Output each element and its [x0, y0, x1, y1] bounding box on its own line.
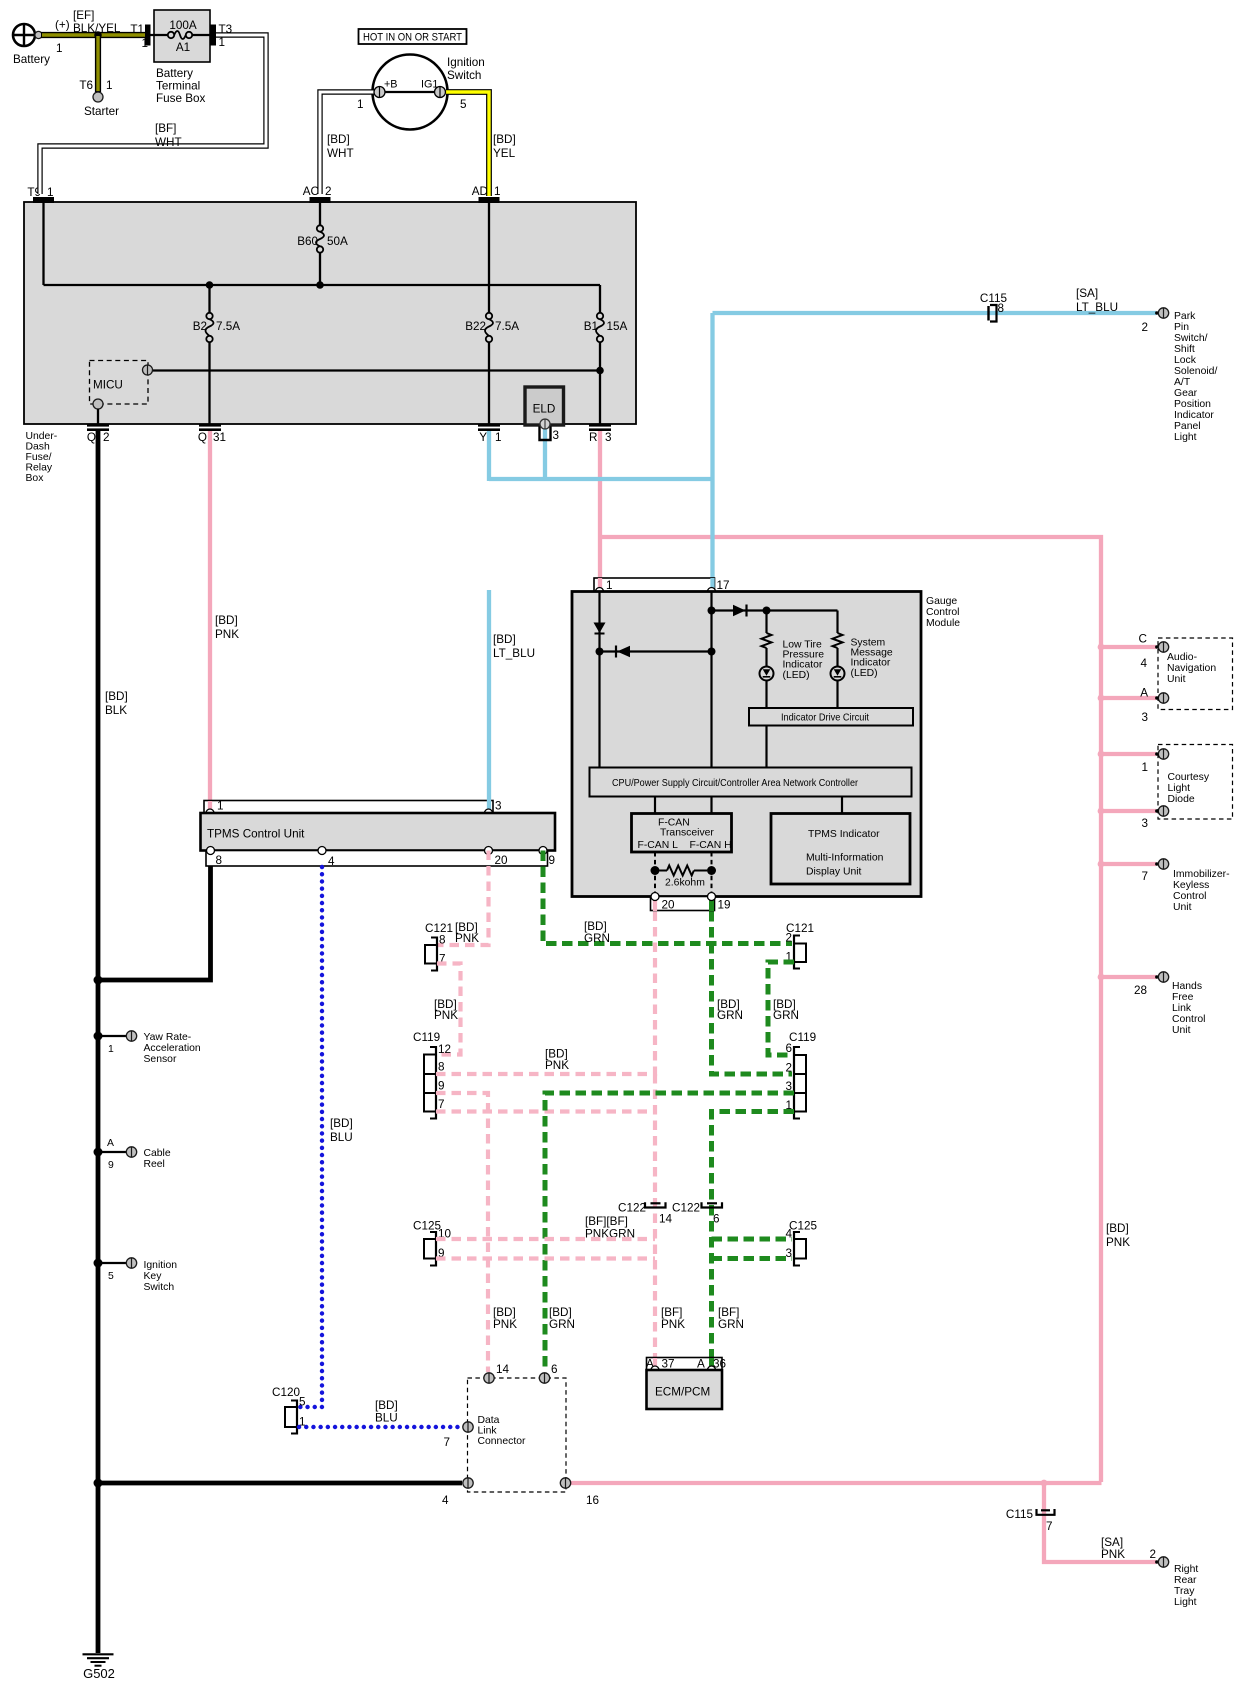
wire PNK dashed gauge pin20 down to ECM pin37: [653, 1074, 657, 1366]
svg-text:B1: B1: [584, 320, 598, 333]
wire PNK dashed C119 pin9 to DLC pin14: [436, 1093, 488, 1372]
svg-text:Control: Control: [1173, 891, 1207, 902]
wire PNK dashed TPMS pin20 to C121 pin8: [438, 851, 489, 946]
wire PNK out of gauge pin20: [653, 899, 657, 911]
svg-text:Terminal: Terminal: [156, 80, 200, 93]
svg-text:7: 7: [1141, 870, 1148, 883]
wire audio C branch: [1101, 645, 1156, 649]
svg-text:[BD]: [BD]: [1106, 1222, 1129, 1235]
node gauge j3: [708, 607, 716, 615]
svg-text:9: 9: [108, 1160, 114, 1171]
wire gauge pin17 internal: [710, 592, 712, 768]
svg-text:1: 1: [141, 37, 148, 50]
wire GRN out of gauge pin19: [709, 899, 714, 911]
svg-text:Cable: Cable: [144, 1148, 171, 1159]
wire black to data link connector pin4: [98, 1481, 462, 1486]
svg-text:5: 5: [460, 98, 467, 111]
svg-text:Module: Module: [926, 618, 960, 629]
svg-text:7.5A: 7.5A: [216, 320, 240, 333]
svg-text:3: 3: [553, 429, 560, 442]
gauge top connector box: [594, 578, 715, 592]
node gauge j2: [708, 648, 716, 656]
svg-text:B22: B22: [465, 320, 486, 333]
wire yaw branch: [98, 1035, 127, 1037]
CPU box: [590, 768, 912, 797]
svg-text:[BD]: [BD]: [215, 614, 238, 627]
wire hands free branch: [1101, 975, 1156, 979]
svg-text:Tray: Tray: [1174, 1586, 1195, 1597]
DLC pin6 terminal: [539, 1373, 549, 1383]
svg-text:A: A: [697, 1358, 705, 1371]
svg-text:Position: Position: [1174, 399, 1211, 410]
svg-text:BLU: BLU: [375, 1412, 398, 1425]
svg-text:4: 4: [785, 1228, 792, 1241]
svg-text:Transceiver: Transceiver: [660, 828, 714, 839]
svg-text:TPMS Indicator: TPMS Indicator: [808, 829, 880, 840]
svg-text:Q: Q: [198, 431, 207, 444]
svg-text:8: 8: [216, 854, 223, 867]
svg-text:ELD: ELD: [533, 403, 556, 416]
svg-text:Link: Link: [478, 1426, 498, 1437]
connector C119 left: [424, 1046, 436, 1120]
svg-text:Indicator: Indicator: [851, 658, 891, 669]
svg-text:Indicator: Indicator: [783, 660, 823, 671]
resistor system message: [833, 633, 843, 648]
svg-text:GRN: GRN: [584, 932, 610, 945]
wire PNK dashed C121 pin7 to C119 pin12: [437, 964, 461, 1055]
node hands free branch: [1098, 974, 1105, 981]
LED low tire pressure indicator: [760, 667, 774, 681]
ECM/PCM header box: [647, 1358, 723, 1371]
gauge control module box: [572, 592, 921, 897]
svg-text:Panel: Panel: [1174, 421, 1201, 432]
svg-text:16: 16: [586, 1494, 599, 1507]
svg-text:19: 19: [718, 899, 731, 912]
svg-text:[BD]: [BD]: [105, 690, 128, 703]
svg-text:BLK: BLK: [105, 704, 127, 717]
svg-text:1: 1: [219, 36, 226, 49]
ignition switch: [373, 55, 448, 130]
svg-text:[BD]: [BD]: [327, 133, 350, 146]
svg-text:20: 20: [662, 899, 676, 912]
svg-text:6: 6: [713, 1213, 720, 1226]
node DLC black branch: [94, 1479, 103, 1488]
node bus-B60: [316, 281, 324, 289]
wire gauge h1: [600, 650, 712, 652]
wire audio A branch: [1101, 696, 1156, 700]
svg-text:Solenoid/: Solenoid/: [1174, 366, 1217, 377]
svg-text:Diode: Diode: [1168, 794, 1195, 805]
svg-text:15A: 15A: [607, 320, 628, 333]
svg-text:6: 6: [785, 1042, 792, 1055]
svg-text:A: A: [1140, 687, 1148, 700]
svg-text:100A: 100A: [169, 19, 197, 32]
wire B60 branch from AC: [319, 203, 321, 228]
wire PNK R3 down to gauge pin1: [598, 431, 602, 590]
fuse B22 7.5A: [486, 313, 492, 319]
wire B22 branch from AD: [488, 203, 490, 316]
wire starter branch: [95, 35, 101, 92]
indicator drive circuit box: [749, 708, 913, 726]
wire B2 branch: [208, 285, 210, 316]
wire LED to IDC: [765, 681, 767, 709]
svg-text:Fuse Box: Fuse Box: [156, 92, 206, 105]
wire GRN dashed branch to C125 right pin4: [712, 1237, 793, 1242]
wire CPU to FCAN H: [710, 797, 712, 814]
svg-text:5: 5: [108, 1271, 114, 1282]
wire LT_BLU riser and drop to gauge pin17: [710, 313, 714, 590]
ignition key switch terminal: [126, 1258, 136, 1268]
svg-text:Ignition: Ignition: [447, 56, 485, 69]
node black junction: [94, 976, 103, 985]
svg-text:3: 3: [605, 431, 612, 444]
svg-text:Fuse/: Fuse/: [26, 452, 52, 463]
svg-text:Courtesy: Courtesy: [1168, 772, 1210, 783]
connector C122 pin14: [645, 1202, 666, 1207]
svg-text:A: A: [107, 1138, 114, 1149]
svg-text:9: 9: [438, 1080, 445, 1093]
svg-text:Hands: Hands: [1172, 981, 1202, 992]
wire courtesy 3 branch: [1101, 809, 1156, 813]
svg-text:Q: Q: [87, 431, 96, 444]
svg-text:PNK: PNK: [1101, 1548, 1125, 1561]
wire PNK DLC16 to rail: [571, 1481, 1102, 1485]
svg-text:9: 9: [549, 854, 556, 867]
connector C121 right: [794, 935, 806, 970]
svg-text:1: 1: [47, 186, 54, 199]
MICU bottom terminal: [93, 399, 103, 409]
wire internal bus: [44, 284, 601, 286]
svg-text:PNK: PNK: [661, 1318, 685, 1331]
svg-text:A1: A1: [176, 41, 190, 54]
svg-text:[EF]: [EF]: [73, 9, 94, 22]
wire [BD] WHT +B to AC: [320, 92, 374, 194]
ECM/PCM box: [647, 1370, 723, 1409]
DLC pin7 terminal: [463, 1422, 473, 1432]
svg-text:BLU: BLU: [330, 1131, 353, 1144]
node immobilizer branch: [1098, 861, 1105, 868]
svg-text:37: 37: [662, 1358, 675, 1371]
svg-text:Pin: Pin: [1174, 322, 1189, 333]
svg-text:PNK: PNK: [1106, 1236, 1130, 1249]
svg-text:2: 2: [785, 1062, 792, 1075]
svg-text:12: 12: [438, 1043, 451, 1056]
svg-text:3: 3: [1141, 817, 1148, 830]
terminal Y1: [478, 424, 500, 431]
svg-text:Yaw Rate-: Yaw Rate-: [144, 1032, 192, 1043]
wire ignition key switch branch: [98, 1262, 127, 1264]
svg-text:7.5A: 7.5A: [495, 320, 519, 333]
svg-text:Data: Data: [478, 1415, 500, 1426]
wire CPU to TPMS indicator: [841, 797, 843, 814]
svg-text:Audio-: Audio-: [1167, 652, 1197, 663]
connector C121 left: [425, 937, 437, 972]
fuse B1 15A: [597, 313, 603, 319]
wire T9 internal: [42, 203, 44, 285]
svg-text:(+): (+): [55, 19, 70, 32]
svg-text:WHT: WHT: [327, 147, 354, 160]
terminal AD: [479, 197, 500, 203]
ELD pin circle: [540, 419, 550, 429]
wire IDC to CPU: [765, 726, 767, 768]
wire GRN dashed C121 right pin1 to C119 right pin6: [768, 962, 794, 1055]
svg-text:6: 6: [551, 1363, 558, 1376]
wire LT_BLU Y1 down: [487, 431, 491, 481]
node gauge j4: [763, 607, 771, 615]
terminal AC: [310, 197, 331, 203]
svg-text:Link: Link: [1172, 1003, 1192, 1014]
ECM pin36 circle: [708, 1366, 716, 1374]
svg-text:Display Unit: Display Unit: [806, 867, 862, 878]
svg-text:Gauge: Gauge: [926, 596, 957, 607]
svg-text:8: 8: [998, 302, 1005, 315]
wire LT_BLU horizontal: [489, 477, 713, 481]
DLC pin16 terminal: [560, 1478, 570, 1488]
terminal Q2: [87, 424, 109, 431]
svg-text:Under-: Under-: [26, 431, 58, 442]
svg-text:28: 28: [1134, 984, 1147, 997]
svg-text:3: 3: [1141, 711, 1148, 724]
svg-text:LT_BLU: LT_BLU: [1076, 301, 1118, 314]
node B1-MICU: [596, 367, 604, 375]
svg-text:ECM/PCM: ECM/PCM: [655, 1386, 710, 1399]
svg-text:GRN: GRN: [717, 1009, 743, 1022]
wire [BD] BLU TPMS pin4 to C120: [299, 867, 322, 1407]
svg-text:Sensor: Sensor: [144, 1054, 177, 1065]
svg-text:7: 7: [443, 1436, 450, 1449]
svg-text:A/T: A/T: [1174, 377, 1191, 388]
svg-text:14: 14: [496, 1363, 510, 1376]
svg-text:Indicator: Indicator: [1174, 410, 1214, 421]
gauge pin1 circle: [596, 588, 604, 596]
svg-text:(LED): (LED): [783, 670, 810, 681]
svg-text:Light: Light: [1168, 783, 1191, 794]
svg-text:2: 2: [325, 185, 332, 198]
gauge bottom connector box: [651, 897, 715, 911]
svg-text:[BD]: [BD]: [375, 1399, 398, 1412]
wire immobilizer branch: [1101, 862, 1156, 866]
wire GRN into ECM pin36: [709, 1358, 714, 1366]
node fcan L: [651, 866, 660, 875]
svg-text:1: 1: [494, 185, 501, 198]
LED system message indicator: [831, 667, 845, 681]
svg-text:3: 3: [785, 1247, 792, 1260]
wire to system resistor: [836, 611, 838, 634]
diode D3 right: [733, 605, 747, 617]
wire [BD] YEL IG1 to AD: [446, 92, 489, 196]
node courtesy 3 branch: [1098, 808, 1105, 815]
wire PNK right rail: [600, 537, 1101, 1482]
svg-text:1: 1: [217, 800, 224, 813]
wire GRN dashed TPMS pin9 to C121 right pin2: [543, 851, 792, 944]
svg-text:Relay: Relay: [26, 463, 53, 474]
resistor 2.6kohm: [660, 866, 708, 876]
audio-navigation unit box: [1158, 638, 1233, 710]
svg-text:CPU/Power Supply Circuit/Contr: CPU/Power Supply Circuit/Controller Area…: [612, 778, 858, 789]
TPMS indicator / multi-information display box: [771, 814, 910, 885]
terminal T9: [33, 197, 54, 203]
svg-text:Ignition: Ignition: [144, 1260, 178, 1271]
wire [BD] BLU C120 pin1 to DLC pin7: [299, 1425, 461, 1429]
wire MICU horizontal: [152, 369, 600, 371]
svg-text:1: 1: [495, 431, 502, 444]
svg-text:2: 2: [103, 431, 110, 444]
node gauge j1: [596, 648, 604, 656]
ELD box: [525, 387, 564, 425]
fuse B2 7.5A: [206, 313, 212, 319]
svg-text:Multi-Information: Multi-Information: [806, 853, 884, 864]
svg-text:Keyless: Keyless: [1173, 880, 1209, 891]
svg-text:LT_BLU: LT_BLU: [493, 647, 535, 660]
wire PNK dashed C125 pin9: [436, 1256, 655, 1260]
starter terminal: [93, 92, 103, 102]
wire [SA] LT_BLU to park pin switch: [713, 311, 1157, 315]
svg-text:HOT IN ON OR START: HOT IN ON OR START: [363, 32, 462, 44]
yaw rate terminal: [126, 1031, 136, 1041]
wire GRN dashed C119 right pin3 to DLC pin6: [545, 1093, 794, 1372]
wire LT_BLU into gauge pin17: [710, 578, 714, 588]
svg-text:Switch: Switch: [447, 69, 481, 82]
svg-text:1: 1: [1141, 761, 1148, 774]
svg-text:5: 5: [299, 1396, 306, 1409]
svg-text:14: 14: [659, 1213, 673, 1226]
connector C125 left: [424, 1231, 436, 1267]
svg-text:PNK: PNK: [215, 628, 239, 641]
DLC pin14 terminal: [484, 1373, 494, 1383]
node ignition key switch branch: [94, 1259, 103, 1268]
diode D1 down: [594, 623, 606, 634]
battery: [12, 23, 42, 47]
wire cable reel branch: [98, 1151, 127, 1153]
node PNK tray branch: [1041, 1480, 1048, 1487]
svg-text:YEL: YEL: [493, 147, 516, 160]
svg-text:Control: Control: [1172, 1014, 1206, 1025]
svg-text:7: 7: [1046, 1520, 1053, 1533]
svg-text:C115: C115: [1006, 1508, 1034, 1521]
terminal Q31: [199, 424, 221, 431]
svg-text:20: 20: [495, 854, 509, 867]
svg-text:31: 31: [213, 431, 226, 444]
terminal T1: [145, 25, 151, 46]
svg-text:Switch/: Switch/: [1174, 333, 1208, 344]
svg-text:2: 2: [1141, 321, 1148, 334]
wire [BD] PNK Q31 to TPMS pin1: [208, 431, 212, 810]
right rear tray light terminal: [1155, 1560, 1158, 1563]
svg-text:F-CAN H: F-CAN H: [690, 840, 732, 851]
svg-text:2: 2: [1149, 1548, 1156, 1561]
svg-text:PNK: PNK: [455, 932, 479, 945]
connector C115 pin7: [1037, 1509, 1055, 1515]
wire LED2 to IDC: [836, 681, 838, 709]
svg-text:C122: C122: [672, 1202, 700, 1215]
wire PNK dashed C125 pin10: [436, 1237, 655, 1241]
svg-text:Reel: Reel: [144, 1159, 165, 1170]
terminal R3: [589, 424, 611, 431]
MICU right terminal: [143, 365, 153, 375]
svg-text:3: 3: [495, 800, 502, 813]
ELD pin connector cup: [540, 427, 551, 441]
DLC pin4 terminal: [463, 1478, 473, 1488]
connector C122 pin6: [702, 1202, 723, 1207]
hot in on or start box: [359, 29, 467, 44]
connector C115 pin8: [989, 305, 997, 322]
svg-text:2: 2: [785, 932, 792, 945]
svg-text:Acceleration: Acceleration: [144, 1043, 201, 1054]
svg-text:AD: AD: [472, 185, 488, 198]
wire [SA] PNK to right rear tray light: [1044, 1483, 1156, 1562]
cable reel terminal: [126, 1147, 136, 1157]
svg-text:C122: C122: [618, 1202, 646, 1215]
svg-text:[BF]: [BF]: [155, 122, 176, 135]
diode D2 left: [616, 646, 630, 658]
TPMS pin20 circle: [485, 847, 493, 855]
wire MICU to Q2: [97, 409, 99, 424]
wire courtesy 1 branch: [1101, 752, 1156, 756]
svg-text:Immobilizer-: Immobilizer-: [1173, 869, 1230, 880]
wire GRN dashed branch to C125 right pin3: [712, 1256, 793, 1261]
svg-text:1: 1: [108, 1044, 114, 1055]
F-CAN transceiver box: [632, 814, 732, 853]
data link connector box: [468, 1378, 567, 1492]
terminal T3: [211, 25, 217, 46]
wire [BD] BLK main ground run: [96, 431, 101, 1653]
svg-text:8: 8: [439, 934, 446, 947]
wire GRN dashed C119 right pin1 to ECM pin36: [712, 1112, 795, 1367]
svg-text:4: 4: [328, 855, 335, 868]
svg-text:T6: T6: [79, 79, 93, 92]
svg-text:Y: Y: [479, 431, 487, 444]
svg-text:C119: C119: [789, 1031, 816, 1044]
svg-text:PNK: PNK: [493, 1318, 517, 1331]
gauge pin17 circle: [708, 588, 716, 596]
under-dash fuse/relay box body: [24, 202, 636, 424]
wire LT_BLU into TPMS pin3: [487, 590, 491, 810]
svg-text:WHT: WHT: [155, 136, 182, 149]
wire PNK dashed C119 pin8 to gauge pin20: [436, 911, 655, 1074]
svg-text:Unit: Unit: [1173, 902, 1192, 913]
wire GRN dashed gauge pin19 to C119 right pin2: [712, 911, 793, 1074]
ignition IG1 terminal: [435, 87, 446, 98]
TPMS pin8 circle: [207, 847, 215, 855]
svg-text:Rear: Rear: [1174, 1575, 1197, 1586]
svg-text:PNK: PNK: [434, 1009, 458, 1022]
svg-text:Unit: Unit: [1167, 674, 1186, 685]
svg-text:Shift: Shift: [1174, 344, 1195, 355]
TPMS bottom connector box: [206, 851, 548, 867]
wire PNK into TPMS pin1: [208, 801, 212, 810]
svg-text:Navigation: Navigation: [1167, 663, 1216, 674]
svg-text:1: 1: [56, 42, 63, 55]
svg-text:1: 1: [106, 79, 113, 92]
svg-text:1: 1: [357, 98, 364, 111]
node cable reel branch: [94, 1148, 103, 1157]
wire [EF] BLK/YEL battery to T1: [41, 32, 148, 38]
svg-text:B60: B60: [297, 235, 318, 248]
TPMS pin9 circle: [539, 847, 547, 855]
svg-text:Park: Park: [1174, 311, 1196, 322]
svg-text:MICU: MICU: [93, 379, 123, 392]
svg-text:C120: C120: [272, 1386, 300, 1399]
wire dashed FCAN H to pin19: [711, 852, 713, 897]
node audio A branch: [1098, 695, 1105, 702]
svg-text:8: 8: [438, 1061, 445, 1074]
wire LT_BLU ELD stub: [543, 424, 547, 481]
node courtesy 1 branch: [1098, 751, 1105, 758]
svg-text:C125: C125: [789, 1220, 817, 1233]
svg-text:PNK: PNK: [545, 1059, 569, 1072]
TPMS pin3 circle: [485, 809, 493, 817]
svg-text:+B: +B: [384, 79, 398, 91]
